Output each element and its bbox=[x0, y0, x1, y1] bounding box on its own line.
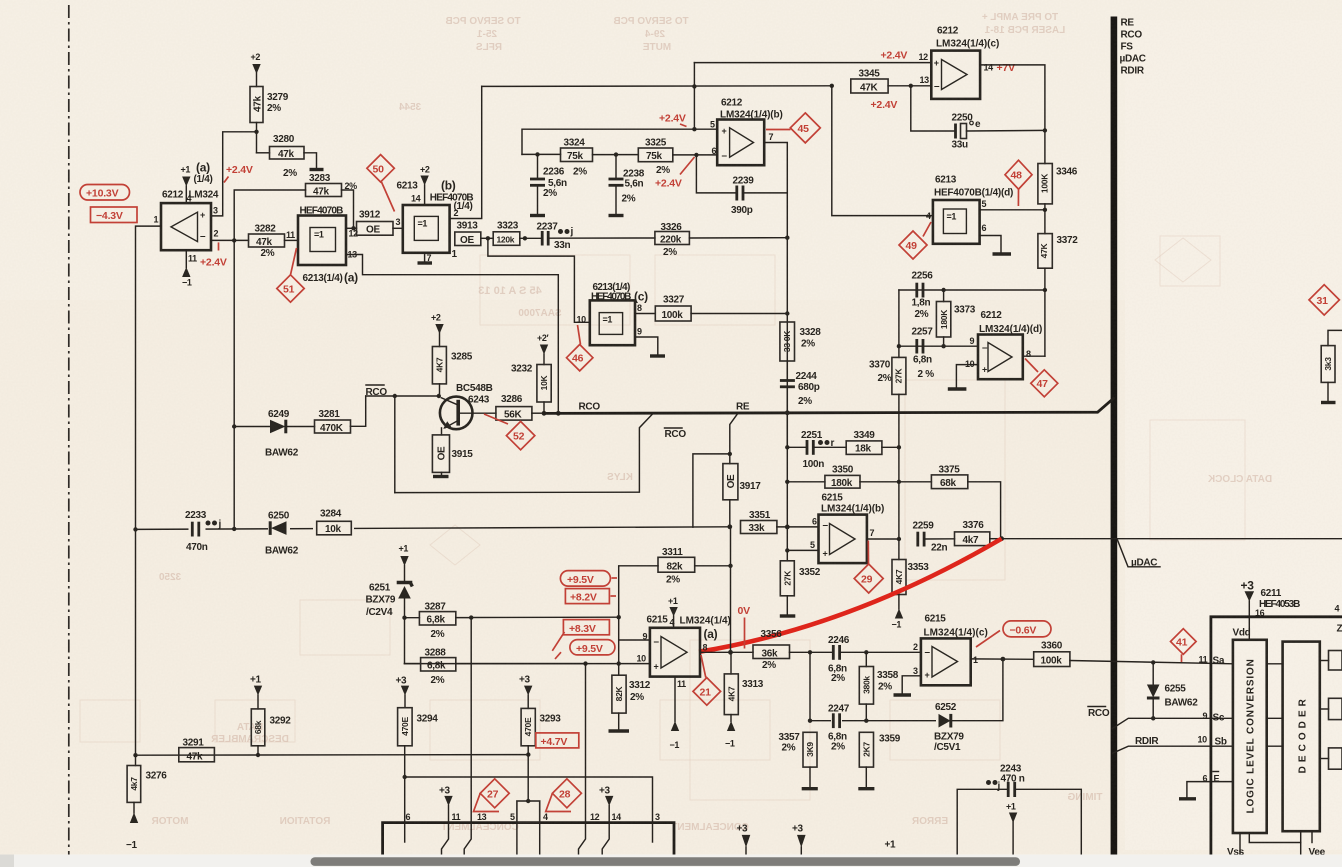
resistor 3276 4k7 bbox=[126, 755, 167, 851]
wire 3356 to 2246 bbox=[790, 651, 833, 653]
wire 3360 to Sa (crosses bar) bbox=[1070, 661, 1233, 664]
resistor 3326 220k bbox=[655, 222, 690, 258]
resistor 3323 120k bbox=[493, 221, 520, 246]
red callout -4.3V bbox=[91, 207, 138, 223]
node 3373 top bbox=[941, 288, 945, 292]
resistor 3353 4K7 bbox=[892, 539, 930, 630]
op-amp d pin10 ground bbox=[948, 365, 978, 389]
pin3 ground bbox=[894, 676, 921, 695]
resistor 3398 3k3 bbox=[1321, 330, 1342, 402]
wire 3285 to collector node bbox=[439, 384, 441, 396]
resistor 3373 180K bbox=[936, 290, 975, 346]
wire drop to long RCO-bar line bbox=[394, 396, 396, 493]
wire op-amp d output pin8 bbox=[1023, 355, 1045, 357]
block DECODER bbox=[1283, 642, 1320, 832]
wire 3372 to feedback node bbox=[1044, 268, 1046, 356]
red 0V bbox=[738, 605, 751, 649]
wire left vertical 2256-2257 bbox=[898, 290, 900, 357]
red diamond 21 bbox=[693, 655, 721, 705]
heavy vertical separator bar bbox=[1111, 17, 1118, 856]
red diamond 29 bbox=[854, 564, 883, 593]
wire 3349 to right vertical bbox=[882, 446, 899, 448]
op-amp U6212c labels bbox=[936, 26, 999, 50]
wire 3311 right to output vertical bbox=[695, 565, 731, 567]
red callout +4.7V bbox=[536, 733, 579, 748]
op-amp U6215a bbox=[650, 628, 700, 677]
wire 3327 to main vertical bbox=[691, 313, 787, 315]
wire 56K to bus bbox=[532, 412, 545, 414]
resistor 3279 47k bbox=[250, 87, 289, 123]
wire 2233 line (to pin2 net) bbox=[136, 527, 730, 530]
IC 6211 labels bbox=[1233, 588, 1301, 639]
capacitor 2236 5,6n bbox=[530, 154, 567, 215]
node pin9 net bbox=[617, 615, 621, 619]
gate U6213b labels bbox=[397, 179, 474, 219]
resistor 3292 68k bbox=[251, 709, 291, 755]
op-amp U6215b bbox=[819, 515, 867, 564]
transistor Q6243 BC548B bbox=[440, 383, 493, 435]
node rail A / pin5 feed bbox=[692, 84, 696, 88]
gate U6213c labels bbox=[591, 282, 648, 304]
red +2.4V (pin5) bbox=[659, 113, 687, 127]
resistor 3285 4K7 bbox=[432, 347, 472, 384]
resistor 3293 470E bbox=[521, 708, 561, 801]
wire pin2 vertical down to diode lines bbox=[233, 240, 235, 529]
IC internal pin stubs bbox=[405, 823, 653, 855]
wire pin7 output down the main vertical bbox=[764, 143, 787, 551]
red callout +9.5V oval bbox=[560, 571, 617, 587]
node bus taps bbox=[542, 411, 547, 416]
capacitor 2233 470n bbox=[185, 510, 222, 553]
gate U6213d bbox=[933, 200, 980, 244]
node pin2 junction bbox=[232, 238, 236, 242]
node OE3913/3323 junction bbox=[486, 236, 490, 240]
power +2 arrow (gate b) bbox=[420, 165, 430, 206]
gate U6213c bbox=[590, 300, 635, 345]
wire uDAC line to right edge bbox=[1002, 538, 1342, 540]
resistor 3360 100k bbox=[1034, 641, 1070, 667]
zener D6251 BZX79/C2V4 bbox=[366, 583, 413, 664]
node 3350 left bbox=[785, 480, 789, 484]
resistor 3284 10k bbox=[313, 509, 354, 537]
power +1 arrow (6251) bbox=[399, 544, 409, 582]
ghost boxes bbox=[80, 700, 140, 742]
test point OE 3917 bbox=[723, 464, 761, 527]
red +2.4V (pin3 area) bbox=[224, 164, 253, 183]
wire left long vertical lower part / 3291 line bbox=[136, 754, 529, 757]
gate U6213d labels bbox=[934, 175, 1013, 199]
node junction 3279/3280/pin3 bbox=[254, 130, 258, 134]
wire 2257 line to pin 9 bbox=[899, 345, 978, 347]
resistor 3287 6,8k bbox=[405, 602, 472, 641]
wire pin14 output bbox=[980, 65, 1045, 164]
op-amp U6215a labels bbox=[647, 615, 731, 642]
capacitor 2238 5,6n bbox=[609, 155, 645, 216]
resistor 3313 4K7 bbox=[724, 652, 763, 748]
wire 2237 to 3326 bbox=[548, 237, 655, 239]
test point OE 3915 bbox=[432, 435, 473, 477]
resistor 3294 470E bbox=[398, 708, 439, 823]
wire 2246 to pin2 bbox=[841, 651, 921, 653]
wire 3326 to main vertical bbox=[690, 237, 788, 239]
test point OE 3913 bbox=[455, 221, 481, 247]
power +3 arrow (3294) bbox=[396, 676, 410, 708]
gate U6213b HEF4070B bbox=[403, 205, 450, 253]
resistor 3352 27K bbox=[780, 550, 821, 616]
node 2251 bbox=[785, 445, 789, 449]
red callout +8.2V bbox=[565, 589, 616, 604]
pin labels op-amp a bbox=[154, 206, 219, 264]
wire 3325 to pin6 bbox=[673, 154, 717, 156]
wire 3345-left vertical to gate d pin4 bbox=[832, 86, 933, 216]
red diamond 45 bbox=[766, 113, 820, 143]
red diamond 27 bbox=[474, 779, 510, 812]
block LOGIC LEVEL CONVERSION bbox=[1233, 640, 1267, 833]
op-amp U6212a (mirrored, output left) bbox=[161, 203, 211, 250]
wire L1 to IC pin3 bbox=[405, 777, 653, 823]
resistor 3359 2K7 bbox=[858, 732, 900, 788]
node 3376 output bbox=[999, 536, 1004, 541]
capacitor 2250 33u electrolytic feedback bbox=[911, 86, 1045, 151]
node Sa diode tap bbox=[1151, 660, 1155, 664]
wire 3232 to bus bbox=[543, 402, 545, 413]
wire pin10 node down to IC pin12 bbox=[585, 664, 587, 823]
wire OE3912 to gate b pin3 bbox=[393, 227, 403, 229]
capacitor 2237 33n bbox=[537, 222, 574, 252]
resistor 3351 33k bbox=[741, 510, 819, 534]
resistor 3358 380k bbox=[859, 652, 898, 720]
resistor 3349 18k bbox=[846, 430, 882, 455]
wire 3345 to pin13 with node bbox=[888, 85, 931, 87]
node 3323 right junction bbox=[523, 236, 527, 240]
capacitor 2251 100n bbox=[787, 430, 846, 470]
op-amp U6215b labels bbox=[821, 493, 884, 515]
gate b pin2 wire up to +2.4V rail A bbox=[450, 86, 482, 218]
red diamond 48 bbox=[1005, 160, 1032, 206]
wire gate a pin13 to RCO bus bbox=[346, 255, 558, 414]
red diamond 31 bbox=[1309, 285, 1339, 315]
power +1 arrow (op-amp a) bbox=[181, 165, 192, 204]
net RE stub diagonal to OE3917 bbox=[730, 414, 738, 464]
wire output vertical (3351 node to output node) bbox=[730, 527, 732, 652]
node 2238 tap bbox=[614, 152, 618, 156]
resistor 3291 47k bbox=[179, 738, 215, 763]
red callout +9.5V oval (2) bbox=[570, 640, 615, 655]
node 3294 bottom / L1 bbox=[403, 775, 407, 779]
red callout +10.3V oval bbox=[80, 185, 130, 201]
red diamond 47 bbox=[1025, 359, 1058, 397]
wire pin10 line bbox=[405, 663, 650, 665]
wire rail B to op-amp c pin12 bbox=[694, 62, 931, 64]
net RDIR stub bbox=[1112, 735, 1233, 754]
red slashes bbox=[552, 632, 564, 651]
capacitor 2243 470n bbox=[957, 764, 1081, 856]
power +3 arrows bottom middle bbox=[737, 824, 751, 856]
red diamond 41 bbox=[1171, 629, 1197, 662]
op-amp U6212b bbox=[717, 120, 764, 166]
IC 6210 block (bottom, cut off) bbox=[383, 799, 674, 855]
resistor 3350 180k bbox=[787, 465, 899, 490]
red diamond 51 bbox=[277, 248, 304, 302]
wire 3287 line into pin9 node bbox=[471, 616, 619, 618]
wire 3280 right to end-bar bbox=[304, 153, 317, 168]
pin 12 wire gate a to OE3912 bbox=[346, 227, 357, 229]
wire Sc from bar bbox=[1112, 718, 1233, 728]
wire line C (pin 5 of b) bbox=[522, 129, 717, 154]
capacitor 2247 6,8n bbox=[828, 704, 850, 753]
resistor 3346 100K bbox=[1038, 164, 1078, 204]
resistor 3281 470K bbox=[286, 409, 351, 434]
net RCO-bar label (right) bbox=[1088, 707, 1110, 720]
resistor 3328 33.0K bbox=[780, 322, 821, 361]
red +2.4V (pin6) bbox=[655, 157, 695, 190]
wire 2256 feedback line bbox=[899, 289, 1045, 291]
wire 6252 up to output bbox=[951, 659, 1003, 721]
red +2.4V (pin2 area) bbox=[200, 242, 227, 268]
net labels right of bar bbox=[1120, 18, 1146, 77]
decoder right-edge boxes bbox=[1320, 651, 1342, 770]
resistor 3372 47K bbox=[1038, 234, 1078, 269]
wire junction left and down to pin 3 bbox=[211, 132, 257, 216]
wire jog rail A to rail B bbox=[693, 63, 695, 87]
capacitor 2239 390p feedback bbox=[696, 155, 787, 216]
resistor 3375 68k feedback bbox=[899, 465, 1001, 539]
node 2236 tap bbox=[535, 152, 539, 156]
pin labels Sa bbox=[1199, 655, 1225, 667]
pin 11 to -1 supply bbox=[182, 250, 192, 287]
power +2 arrow (3279) bbox=[251, 52, 261, 87]
node zener/3287 bbox=[402, 616, 406, 620]
op-amp U6212d labels bbox=[979, 310, 1042, 335]
resistor 3356 36k bbox=[753, 629, 790, 671]
labels 4 / Z at right edge bbox=[1335, 604, 1342, 635]
test point OE 3912 bbox=[357, 210, 394, 236]
red diamond 28 bbox=[546, 779, 582, 812]
diode D6249 BAW62 bbox=[234, 409, 298, 459]
red diamond 50 bbox=[367, 155, 395, 212]
diode D6252 BZX79/C5V1 bbox=[934, 702, 964, 753]
wire output c bbox=[971, 658, 1034, 660]
capacitor 2244 680p bbox=[780, 361, 820, 447]
pin 11 to -1 bbox=[670, 677, 680, 750]
E-bar pin 6 to ground bbox=[1179, 772, 1233, 799]
power +3 arrow (IC pin14) bbox=[599, 786, 613, 823]
resistor 3232 10K bbox=[511, 364, 551, 403]
wire OE3913 net down/right to gate c pin10 bbox=[488, 238, 590, 322]
op-amp U6212a labels bbox=[162, 161, 219, 201]
wire 3324 left bbox=[522, 153, 561, 155]
op-amp U6212c bbox=[931, 51, 980, 99]
IC pin numbers bbox=[406, 812, 661, 822]
capacitor 2246 6,8n bbox=[828, 635, 850, 684]
capacitor 2256 1,8n bbox=[912, 271, 934, 321]
resistor 3286 56K bbox=[461, 394, 532, 421]
wire 2247 line bbox=[810, 720, 939, 722]
power +1 arrow (6215a) bbox=[668, 596, 678, 628]
wire 3346 to pin5 node bbox=[1044, 204, 1046, 234]
resistor 3324 75k bbox=[561, 138, 593, 178]
resistor 3357 3K9 bbox=[779, 732, 818, 789]
rail end bar (3280) bbox=[310, 168, 324, 171]
resistor 3312 82K bbox=[609, 664, 651, 731]
wires between blocks bbox=[1267, 664, 1283, 746]
gate b pin7 ground bbox=[418, 253, 433, 263]
op-amp U6212b labels bbox=[720, 98, 783, 121]
wire 3324-3325 bbox=[593, 154, 639, 156]
wire 6215a output bbox=[700, 651, 753, 653]
red callout +8.3V bbox=[563, 620, 609, 635]
signal red curve bbox=[699, 539, 1002, 652]
wire 3282 to gate a bbox=[285, 239, 299, 241]
power +3 arrow (3293) bbox=[519, 675, 532, 709]
net RCO-bar stub (label) bbox=[366, 385, 388, 398]
wire 3311 left to pin9 vertical bbox=[619, 566, 658, 640]
wire gate d pin5 to 3372 bbox=[980, 209, 1045, 211]
wire RE node left branch down to 3351 line bbox=[693, 454, 730, 527]
resistor 3325 75k bbox=[638, 138, 673, 177]
power +1 arrow (3292) bbox=[250, 675, 262, 709]
diode D6250 BAW62 bbox=[265, 511, 299, 557]
node pin6 / 2239 tap bbox=[694, 153, 698, 157]
wire RCO-bar stub to 3281 bbox=[366, 395, 439, 397]
op-amp U6215c labels bbox=[924, 614, 988, 639]
op-amp U6212d bbox=[978, 335, 1023, 380]
op-amp U6215c bbox=[921, 638, 971, 685]
left dash-dot border line bbox=[68, 5, 70, 855]
wire rail A (+2.4V) bbox=[482, 85, 832, 88]
resistor 3280 47k bbox=[257, 134, 305, 179]
wire 3287 node down to IC pin13 bbox=[470, 618, 472, 823]
resistor 3288 6,8k bbox=[405, 648, 586, 687]
red diamond 49 (gate d) bbox=[899, 222, 931, 259]
wire vertical 36k node to 2247 bbox=[809, 652, 811, 720]
node 3345 left bbox=[830, 84, 834, 88]
resistor 3283 47k bbox=[306, 173, 358, 198]
wire RCO/RE thick bus bbox=[544, 398, 1114, 413]
wire 3283 left to pin2 vertical bbox=[234, 190, 305, 240]
wire 3279 bottom to junction bbox=[256, 123, 258, 153]
resistor 3282 47k bbox=[249, 224, 285, 260]
wire 6215b output bbox=[867, 538, 899, 540]
wire pin5 feed vertical bbox=[693, 86, 695, 129]
block bottom stubs Vss/Vee bbox=[1227, 831, 1326, 858]
wire pin1 to long left vertical bbox=[136, 226, 162, 755]
gate d pin6 to ground bbox=[980, 236, 1011, 255]
power +2' arrow (3232) bbox=[537, 333, 548, 365]
power +2 arrow (3285) bbox=[431, 313, 444, 347]
node RCO-bar drop bbox=[393, 394, 397, 398]
resistor 3370 27K bbox=[869, 357, 906, 394]
resistor 3345 47K bbox=[851, 69, 888, 94]
power +3 arrow (Vdd) bbox=[1241, 579, 1255, 640]
ghost bleed-through texts (back of page, mirrored) bbox=[151, 12, 1272, 833]
resistor 3327 100k bbox=[635, 295, 691, 322]
power +3 arrow (IC pin11) bbox=[439, 786, 453, 823]
capacitor 2259 22n bbox=[913, 521, 955, 554]
wire pin5 from main vertical bbox=[787, 549, 818, 551]
gate c pin9 ground bbox=[635, 337, 665, 356]
net uDAC stub bbox=[1118, 540, 1161, 569]
wire 3283 right down to OE3912 output bbox=[342, 190, 354, 228]
red callout -0.6V oval bbox=[976, 621, 1051, 647]
net RCO-bar stub at bus bbox=[665, 428, 687, 440]
red line to diamond 29 bbox=[867, 541, 869, 565]
red diamond 46 bbox=[567, 325, 593, 371]
capacitor 2257 6,8n bbox=[912, 327, 935, 381]
power +1 arrow (2243 area) bbox=[1006, 802, 1017, 856]
resistor 3311 82k bbox=[658, 547, 695, 586]
resistor 3376 4k7 bbox=[955, 520, 1002, 546]
wire 3370 to 2251 node bbox=[898, 394, 900, 539]
diode D6255 BAW62 bbox=[1147, 662, 1198, 718]
red diamond 52 bbox=[484, 414, 535, 450]
wire pin2 to 3282 bbox=[211, 239, 249, 241]
thick right block outline bbox=[1211, 617, 1342, 855]
gate U6213a HEF4070B bbox=[298, 206, 358, 285]
wire long RCO-bar line bbox=[395, 414, 652, 492]
